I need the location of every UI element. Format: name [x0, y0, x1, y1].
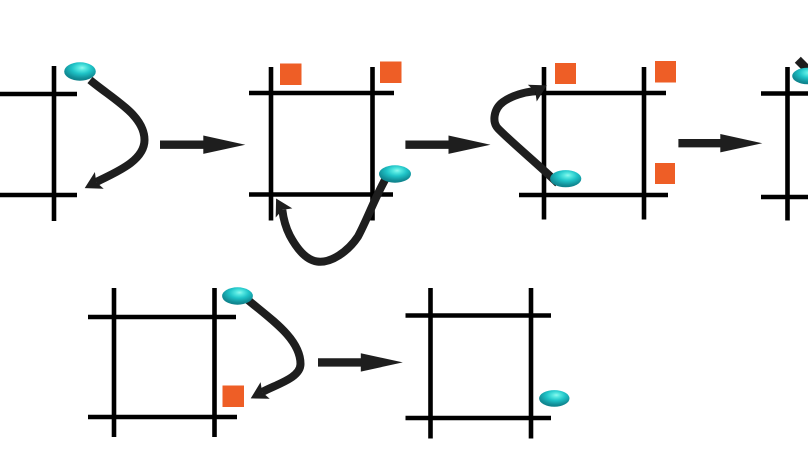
curved arrow panel5 — [248, 300, 301, 392]
wire: panel5 top horizontal grid line — [88, 315, 236, 320]
wire: panel1 vertical grid line — [52, 66, 57, 221]
ball panel1 — [64, 62, 96, 80]
curved U arrow panel2 — [282, 173, 389, 262]
wire: panel1 top horizontal grid line — [0, 92, 77, 97]
straight arrow 2 — [405, 136, 490, 154]
wire: panel6 left vertical grid line — [428, 288, 433, 439]
ball panel6 — [539, 390, 569, 407]
orange square panel2 left — [280, 64, 302, 86]
straight arrow 3 — [678, 134, 762, 152]
straight arrow 1 — [160, 136, 245, 154]
wire: panel2 right vertical grid line — [370, 67, 375, 221]
wire: panel2 bottom horizontal grid line — [249, 192, 393, 197]
wire: panel6 right vertical grid line — [529, 288, 534, 439]
wire: panel6 top horizontal grid line — [406, 313, 552, 318]
wire: panel5 bottom horizontal grid line — [88, 415, 237, 420]
curved arrow panel1 — [90, 80, 145, 182]
wire: panel4 vertical grid line — [785, 67, 790, 221]
ball panel5 — [222, 287, 253, 304]
wire: panel6 bottom horizontal grid line — [406, 416, 552, 421]
ball panel3 — [550, 170, 581, 187]
wire: panel2 left vertical grid line — [269, 67, 274, 221]
straight arrow 4 — [318, 353, 403, 371]
orange square panel3 mid-right — [655, 163, 675, 184]
wire: panel3 right vertical grid line — [642, 67, 647, 220]
wire: panel5 right vertical grid line — [212, 288, 217, 437]
wire: panel5 left vertical grid line — [112, 288, 117, 437]
wire: panel3 left vertical grid line — [542, 67, 547, 220]
wire: panel1 bottom horizontal grid line — [0, 193, 77, 198]
wire: panel4 top horizontal grid line — [761, 91, 808, 96]
orange square panel5 — [223, 386, 245, 408]
curved arrow fragment panel4 — [798, 60, 808, 81]
ball panel4 — [792, 68, 808, 84]
ball panel2 — [379, 165, 411, 182]
orange square panel2 right — [380, 62, 402, 84]
curved C arrow panel3 — [494, 91, 558, 183]
wire: panel3 top horizontal grid line — [518, 91, 666, 96]
orange square panel3 top-left — [555, 63, 576, 84]
wire: panel2 top horizontal grid line — [249, 91, 394, 96]
wire: panel3 bottom horizontal grid line — [519, 193, 668, 198]
orange square panel3 top-right — [655, 61, 676, 83]
wire: panel4 bottom horizontal grid line — [761, 195, 808, 200]
